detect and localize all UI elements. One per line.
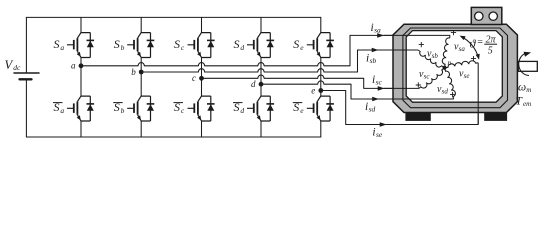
svg-text:se: se xyxy=(376,130,383,139)
svg-text:S: S xyxy=(174,37,180,51)
svg-text:S: S xyxy=(54,100,60,114)
svg-text:d: d xyxy=(240,106,244,115)
svg-text:S: S xyxy=(234,100,240,114)
svg-text:sa: sa xyxy=(459,45,466,53)
svg-text:dc: dc xyxy=(13,63,21,72)
svg-text:se: se xyxy=(464,72,470,80)
svg-text:5: 5 xyxy=(488,46,493,57)
svg-text:d: d xyxy=(251,79,256,89)
svg-text:S: S xyxy=(293,37,299,51)
svg-text:S: S xyxy=(54,37,60,51)
svg-text:b: b xyxy=(121,106,125,115)
svg-text:d: d xyxy=(240,43,244,52)
svg-text:sd: sd xyxy=(442,88,449,96)
svg-text:a: a xyxy=(60,106,64,115)
svg-text:sd: sd xyxy=(369,105,376,114)
svg-text:a: a xyxy=(60,43,64,52)
svg-text:a: a xyxy=(71,61,76,71)
svg-text:e: e xyxy=(311,85,315,95)
svg-text:em: em xyxy=(523,100,531,108)
svg-text:sa: sa xyxy=(374,26,381,35)
svg-text:m: m xyxy=(526,86,531,94)
svg-text:S: S xyxy=(174,100,180,114)
svg-text:S: S xyxy=(114,100,120,114)
svg-text:c: c xyxy=(192,73,196,83)
svg-text:sc: sc xyxy=(424,73,431,81)
svg-text:ω: ω xyxy=(518,82,526,94)
svg-text:S: S xyxy=(234,37,240,51)
svg-text:S: S xyxy=(114,37,120,51)
svg-text:2π: 2π xyxy=(485,35,496,46)
svg-text:b: b xyxy=(131,67,136,77)
svg-text:sc: sc xyxy=(376,78,383,87)
svg-text:n: n xyxy=(448,58,452,67)
svg-text:S: S xyxy=(293,100,299,114)
svg-text:b: b xyxy=(121,43,125,52)
svg-text:sb: sb xyxy=(432,52,439,60)
svg-text:sb: sb xyxy=(370,56,377,65)
svg-text:=: = xyxy=(477,37,483,48)
